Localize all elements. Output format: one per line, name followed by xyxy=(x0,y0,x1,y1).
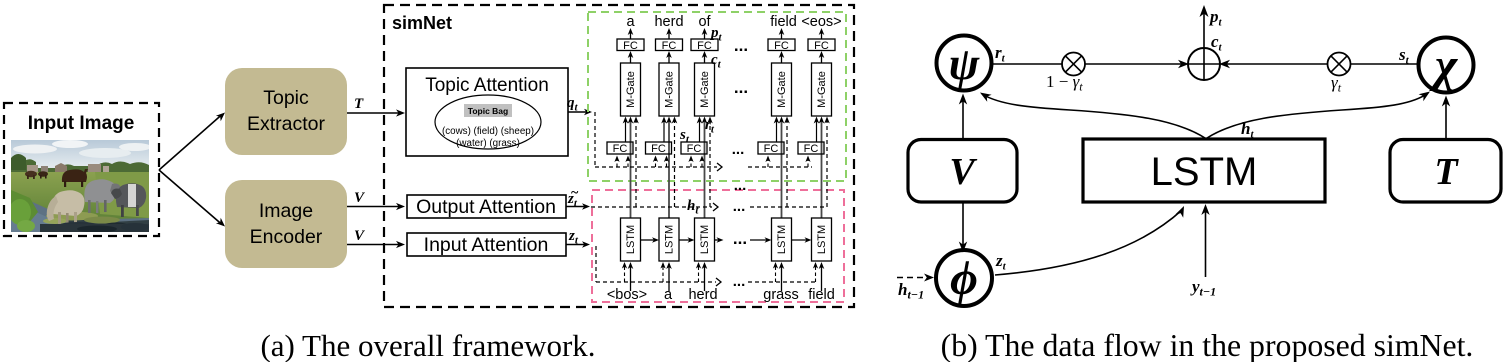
svg-text:simNet: simNet xyxy=(392,13,452,33)
svg-text:herd: herd xyxy=(654,14,683,30)
svg-text:field: field xyxy=(770,14,797,30)
svg-text:<eos>: <eos> xyxy=(801,14,841,30)
svg-text:FC: FC xyxy=(697,40,712,52)
svg-text:(cows) (field) (sheep): (cows) (field) (sheep) xyxy=(442,126,534,137)
svg-text:...: ... xyxy=(733,198,746,215)
svg-text:~: ~ xyxy=(571,186,579,201)
svg-text:grass: grass xyxy=(763,287,798,303)
svg-text:(b) The data flow in the propo: (b) The data flow in the proposed simNet… xyxy=(941,328,1474,362)
svg-text:T: T xyxy=(1434,151,1459,193)
svg-text:LSTM: LSTM xyxy=(664,225,676,254)
svg-text:Input Image: Input Image xyxy=(28,113,135,134)
svg-text:FC: FC xyxy=(613,143,628,155)
svg-text:Topic Attention: Topic Attention xyxy=(425,75,549,96)
svg-text:Image: Image xyxy=(259,200,313,222)
svg-text:LSTM: LSTM xyxy=(776,225,788,254)
svg-text:M-Gate: M-Gate xyxy=(816,71,828,108)
svg-text:M-Gate: M-Gate xyxy=(699,71,711,108)
svg-text:a: a xyxy=(664,287,673,303)
svg-text:LSTM: LSTM xyxy=(816,225,828,254)
svg-text:(water) (grass): (water) (grass) xyxy=(456,138,520,149)
svg-text:FC: FC xyxy=(814,40,829,52)
svg-text:herd: herd xyxy=(688,287,717,303)
svg-text:...: ... xyxy=(733,273,746,290)
svg-text:...: ... xyxy=(734,177,747,194)
svg-text:(a) The overall framework.: (a) The overall framework. xyxy=(260,328,595,362)
svg-text:LSTM: LSTM xyxy=(625,225,637,254)
svg-text:...: ... xyxy=(732,141,745,158)
svg-text:FC: FC xyxy=(774,40,789,52)
svg-text:...: ... xyxy=(734,36,748,55)
svg-text:FC: FC xyxy=(623,40,638,52)
svg-text:ϕ: ϕ xyxy=(950,252,978,305)
svg-text:field: field xyxy=(808,287,835,303)
svg-text:...: ... xyxy=(733,229,747,248)
svg-text:Topic Bag: Topic Bag xyxy=(468,106,508,116)
svg-text:1 − γt: 1 − γt xyxy=(1046,72,1083,94)
svg-text:FC: FC xyxy=(662,40,677,52)
svg-text:LSTM: LSTM xyxy=(699,225,711,254)
svg-text:M-Gate: M-Gate xyxy=(776,71,788,108)
svg-text:Topic: Topic xyxy=(263,87,309,109)
svg-text:FC: FC xyxy=(804,143,819,155)
svg-text:ψ: ψ xyxy=(949,38,981,89)
svg-text:LSTM: LSTM xyxy=(1151,150,1258,194)
svg-text:...: ... xyxy=(734,78,748,97)
svg-text:<bos>: <bos> xyxy=(607,287,647,303)
svg-text:FC: FC xyxy=(651,143,666,155)
svg-text:of: of xyxy=(698,14,711,30)
svg-text:Encoder: Encoder xyxy=(250,226,323,248)
svg-text:Extractor: Extractor xyxy=(247,113,326,135)
svg-text:FC: FC xyxy=(764,143,779,155)
svg-text:M-Gate: M-Gate xyxy=(625,71,637,108)
svg-text:T: T xyxy=(354,96,364,112)
svg-text:a: a xyxy=(626,14,635,30)
svg-text:M-Gate: M-Gate xyxy=(664,71,676,108)
svg-text:Input Attention: Input Attention xyxy=(424,234,549,256)
svg-text:Output Attention: Output Attention xyxy=(416,196,556,218)
svg-text:V: V xyxy=(949,151,977,193)
